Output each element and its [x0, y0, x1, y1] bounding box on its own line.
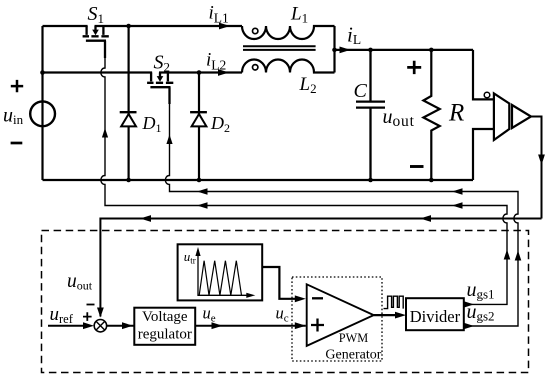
- label minus source: [11, 142, 23, 145]
- svg-text:Generator: Generator: [325, 348, 381, 363]
- label minus output: [410, 165, 424, 168]
- label i_L1: [209, 2, 229, 25]
- arrow u_out feedback left 2: [420, 215, 431, 222]
- wire top rail right of S1: [95, 25, 243, 27]
- polarity dot L1: [253, 28, 258, 33]
- node inductor output: [332, 48, 337, 53]
- label u_c: [276, 304, 289, 325]
- node top rail / D1: [126, 24, 131, 29]
- PWM pulse glyph: [384, 296, 404, 308]
- polarity dot L2: [253, 65, 258, 70]
- arrow gate S2 up: [166, 135, 172, 145]
- arrow i_L1: [219, 23, 230, 30]
- label plus source: [11, 80, 23, 92]
- op-amp comparator: [307, 284, 374, 346]
- wire top rail left: [43, 25, 88, 27]
- transistor S2: [147, 73, 173, 105]
- label u_out feedback: [67, 271, 93, 293]
- sawtooth waveform: [199, 261, 241, 296]
- node C bottom: [368, 178, 373, 183]
- wire inductor junction: [333, 26, 335, 73]
- label u_in: [3, 105, 24, 128]
- svg-text:D2: D2: [210, 113, 230, 135]
- label D2: [210, 113, 230, 135]
- svg-text:iL: iL: [347, 23, 361, 48]
- wire comparator to divider: [374, 312, 406, 319]
- PWM generator dashed box: [292, 277, 382, 361]
- label S2: [154, 52, 171, 75]
- sawtooth axes: [195, 247, 255, 298]
- wire sensor lower input: [473, 129, 494, 180]
- voltage source u_in: [30, 101, 55, 126]
- arrow u_out feedback down: [97, 308, 104, 318]
- arrow u_gs2 up: [515, 251, 522, 261]
- arrow u_gs1 line left 1: [197, 202, 208, 208]
- label u_gs1: [467, 279, 495, 302]
- label S1: [88, 3, 105, 26]
- label R: [448, 100, 464, 127]
- svg-text:uref: uref: [50, 304, 74, 326]
- arrow u_gs2 out: [464, 323, 474, 329]
- wire u_ref input: [48, 322, 94, 329]
- arrow u_gs1 line left 2: [452, 202, 463, 208]
- node left rail / second rail: [40, 70, 45, 75]
- inductor L1 winding: [242, 26, 335, 39]
- wire output top rail: [335, 49, 474, 51]
- sawtooth generator block: [178, 244, 263, 300]
- svg-text:uout: uout: [383, 106, 415, 130]
- wire sawtooth to comparator: [262, 267, 306, 302]
- arrow gate S1 up: [102, 128, 108, 138]
- wire summing to voltage regulator: [107, 322, 135, 329]
- arrow u_gs2 line left 2: [452, 188, 463, 194]
- arrow u_gs1 out: [464, 301, 474, 307]
- arrow u_out feedback left 1: [140, 215, 151, 222]
- label u_tr: [184, 249, 196, 266]
- magnetic core: [243, 46, 316, 50]
- label minus summing: [87, 304, 95, 306]
- svg-text:S2: S2: [154, 52, 171, 75]
- voltage sensor U3 buffer: [512, 105, 531, 128]
- svg-text:S1: S1: [88, 3, 105, 26]
- svg-text:uout: uout: [67, 271, 93, 293]
- wire gate drive u_gs2 to S2: [165, 87, 518, 326]
- wire second rail left: [43, 71, 153, 73]
- label u_out main: [383, 106, 415, 130]
- wire sensor output: [531, 117, 542, 219]
- arrow sensor output down: [538, 155, 545, 166]
- diode D1: [120, 26, 137, 180]
- label D1: [142, 113, 162, 135]
- label u_ref: [50, 304, 74, 326]
- sensor input terminal circle: [484, 92, 490, 98]
- resistor R: [423, 50, 439, 180]
- svg-text:R: R: [448, 100, 464, 127]
- svg-text:uin: uin: [3, 105, 24, 128]
- svg-text:iL1: iL1: [209, 2, 229, 25]
- label PWM Generator: [325, 331, 381, 363]
- svg-text:C: C: [354, 80, 368, 102]
- label L2: [299, 74, 317, 96]
- arrow i_L: [340, 47, 351, 54]
- summing junction: [94, 320, 106, 332]
- arrow i_L2: [218, 69, 229, 76]
- label i_L: [347, 23, 361, 48]
- label plus summing: [83, 312, 92, 321]
- svg-text:ue: ue: [203, 304, 216, 325]
- svg-text:Divider: Divider: [410, 307, 461, 326]
- arrow u_gs1 up: [504, 250, 511, 260]
- node D1 bottom: [126, 178, 131, 183]
- svg-text:iL2: iL2: [206, 50, 226, 73]
- label plus output: [407, 61, 421, 74]
- svg-text:ugs1: ugs1: [467, 279, 495, 302]
- svg-text:L1: L1: [290, 4, 308, 26]
- svg-text:D1: D1: [142, 113, 162, 135]
- label u_gs2: [467, 301, 495, 324]
- svg-text:regulator: regulator: [138, 327, 192, 343]
- voltage sensor U3 body: [494, 93, 509, 140]
- svg-text:uc: uc: [276, 304, 289, 325]
- svg-text:Voltage: Voltage: [142, 309, 188, 325]
- transistor S1: [83, 26, 109, 58]
- wire second rail right of S2: [159, 71, 242, 73]
- label i_L2: [206, 50, 226, 73]
- node C top: [368, 48, 373, 53]
- inductor L2 winding: [242, 60, 335, 73]
- control box dashed border: [42, 231, 529, 373]
- wire bottom rail: [43, 179, 474, 181]
- wire gate drive u_gs1 to S1: [101, 41, 507, 305]
- arrow u_gs2 line left 1: [197, 188, 208, 194]
- wire sensor upper input: [473, 50, 494, 100]
- svg-text:L2: L2: [299, 74, 317, 96]
- node D2 bottom: [197, 178, 202, 183]
- node R bottom: [429, 178, 434, 183]
- label C: [354, 80, 368, 102]
- svg-text:PWM: PWM: [339, 331, 368, 345]
- label L1: [290, 4, 308, 26]
- divider block: [406, 298, 464, 330]
- wire u_e: [195, 322, 306, 329]
- diode D2: [190, 73, 207, 181]
- node R top: [429, 48, 434, 53]
- node second rail / D2: [197, 70, 202, 75]
- label u_e: [203, 304, 216, 325]
- voltage regulator block: [134, 308, 195, 345]
- capacitor C: [356, 50, 385, 180]
- wire left rail: [41, 26, 43, 180]
- wire u_out feedback: [100, 219, 541, 317]
